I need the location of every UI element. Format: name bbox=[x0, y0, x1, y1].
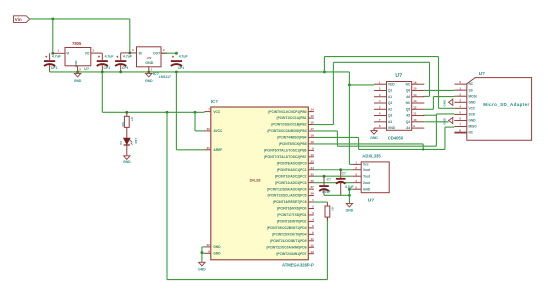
svg-text:NC: NC bbox=[469, 131, 474, 135]
svg-text:CP1: CP1 bbox=[122, 66, 129, 70]
svg-text:U?: U? bbox=[479, 71, 485, 76]
svg-text:4.7uF: 4.7uF bbox=[345, 185, 354, 189]
svg-text:GND: GND bbox=[198, 268, 206, 272]
svg-text:GND: GND bbox=[213, 251, 221, 255]
svg-text:CP1: CP1 bbox=[178, 66, 185, 70]
svg-text:(PCINT20/XCK/T0)PD4: (PCINT20/XCK/T0)PD4 bbox=[272, 232, 307, 236]
svg-text:GND: GND bbox=[363, 187, 371, 191]
svg-text:LED: LED bbox=[134, 138, 138, 144]
svg-text:D?: D? bbox=[119, 140, 123, 144]
svg-text:(PCINT18/INT0)PD2: (PCINT18/INT0)PD2 bbox=[277, 220, 307, 224]
svg-text:11: 11 bbox=[311, 237, 314, 241]
svg-text:(PCINT23/AIN1)PD7: (PCINT23/AIN1)PD7 bbox=[276, 252, 306, 256]
svg-text:Q1: Q1 bbox=[388, 89, 392, 93]
svg-text:CP1: CP1 bbox=[51, 66, 58, 70]
svg-text:VCC: VCC bbox=[469, 106, 476, 110]
svg-text:NC: NC bbox=[406, 101, 411, 105]
svg-text:20: 20 bbox=[207, 127, 211, 131]
svg-text:12: 12 bbox=[310, 243, 314, 247]
svg-text:AVCC: AVCC bbox=[213, 129, 223, 133]
svg-text:+: + bbox=[172, 55, 175, 60]
svg-text:(PCINT11/ADC3)PC3: (PCINT11/ADC3)PC3 bbox=[275, 181, 307, 185]
svg-text:16: 16 bbox=[310, 121, 314, 125]
svg-text:(PCINT16/RXD)PD0: (PCINT16/RXD)PD0 bbox=[277, 207, 307, 211]
svg-text:Vin: Vin bbox=[15, 17, 22, 22]
svg-text:4.7uF: 4.7uF bbox=[123, 54, 132, 58]
svg-text:R?: R? bbox=[330, 207, 334, 211]
svg-text:SCK: SCK bbox=[469, 113, 476, 117]
svg-text:4.7uF: 4.7uF bbox=[179, 54, 188, 58]
svg-text:CD4050: CD4050 bbox=[388, 136, 404, 141]
svg-text:(PCINT12/SDA/ADC4)PC4: (PCINT12/SDA/ADC4)PC4 bbox=[267, 187, 307, 191]
svg-text:A2: A2 bbox=[388, 107, 392, 111]
svg-text:15: 15 bbox=[310, 114, 314, 118]
svg-text:11: 11 bbox=[413, 112, 416, 116]
svg-text:15: 15 bbox=[413, 87, 417, 91]
svg-text:14: 14 bbox=[310, 108, 314, 112]
svg-text:OUT: OUT bbox=[153, 51, 161, 55]
svg-text:(PCINT5/SCK)PB5: (PCINT5/SCK)PB5 bbox=[279, 142, 307, 146]
svg-text:Q3: Q3 bbox=[388, 114, 392, 118]
svg-text:GND: GND bbox=[469, 100, 477, 104]
svg-text:(PCINT7/XTAL2/TOSC2)PB7: (PCINT7/XTAL2/TOSC2)PB7 bbox=[264, 155, 307, 159]
svg-text:14: 14 bbox=[413, 93, 417, 97]
svg-text:GND: GND bbox=[74, 79, 82, 83]
svg-text:A3: A3 bbox=[388, 120, 392, 124]
svg-text:(PCINT13/SCL/ADC5)PC5: (PCINT13/SCL/ADC5)PC5 bbox=[267, 194, 306, 198]
svg-text:21: 21 bbox=[207, 146, 211, 150]
svg-text:LM1117: LM1117 bbox=[159, 75, 171, 79]
svg-text:(PCINT3/OC2A/MOSI)PB3: (PCINT3/OC2A/MOSI)PB3 bbox=[267, 129, 306, 133]
svg-text:MOSI: MOSI bbox=[469, 94, 477, 98]
svg-text:27: 27 bbox=[310, 185, 314, 189]
svg-text:GND: GND bbox=[442, 117, 446, 125]
svg-text:U?: U? bbox=[368, 198, 374, 203]
svg-text:10: 10 bbox=[413, 118, 417, 122]
svg-text:(PCINT6/XTAL1/TOSC1)PB6: (PCINT6/XTAL1/TOSC1)PB6 bbox=[264, 149, 307, 153]
svg-text:VCC: VCC bbox=[213, 110, 221, 114]
svg-text:28: 28 bbox=[310, 192, 314, 196]
svg-text:4.7uF: 4.7uF bbox=[105, 54, 114, 58]
svg-text:Zout: Zout bbox=[363, 181, 371, 185]
svg-text:Vcc: Vcc bbox=[363, 163, 369, 167]
svg-text:ADXL335: ADXL335 bbox=[362, 153, 381, 158]
svg-text:A1: A1 bbox=[388, 95, 392, 99]
svg-text:24: 24 bbox=[310, 166, 314, 170]
svg-text:(PCINT0/CLKO/ICP1)PB0: (PCINT0/CLKO/ICP1)PB0 bbox=[268, 110, 306, 114]
svg-text:(PCINT10/ADC2)PC2: (PCINT10/ADC2)PC2 bbox=[275, 174, 307, 178]
svg-text:IC?: IC? bbox=[211, 99, 218, 104]
svg-text:12: 12 bbox=[413, 105, 417, 109]
svg-text:(PCINT8/ADC0)PC0: (PCINT8/ADC0)PC0 bbox=[277, 161, 307, 165]
svg-text:CP1: CP1 bbox=[104, 66, 111, 70]
svg-text:A6: A6 bbox=[406, 95, 410, 99]
svg-text:4.7uF: 4.7uF bbox=[52, 54, 61, 58]
svg-text:(PCINT17/TXD)PD1: (PCINT17/TXD)PD1 bbox=[277, 213, 306, 217]
svg-text:GND: GND bbox=[388, 126, 396, 130]
svg-text:16: 16 bbox=[413, 80, 417, 84]
svg-text:ATMEGA328P-P: ATMEGA328P-P bbox=[282, 262, 314, 267]
svg-text:4.7uF: 4.7uF bbox=[322, 190, 331, 194]
svg-text:Q6: Q6 bbox=[406, 89, 410, 93]
svg-text:A5: A5 bbox=[406, 114, 410, 118]
svg-text:C?: C? bbox=[327, 177, 331, 181]
svg-text:AREF: AREF bbox=[213, 148, 222, 152]
svg-text:VO: VO bbox=[85, 52, 90, 56]
svg-text:GND: GND bbox=[213, 245, 221, 249]
svg-text:13: 13 bbox=[310, 250, 314, 254]
svg-text:R?: R? bbox=[130, 118, 134, 122]
svg-text:A4: A4 bbox=[406, 126, 410, 130]
svg-text:GND: GND bbox=[346, 208, 354, 212]
svg-text:SS: SS bbox=[469, 88, 473, 92]
svg-text:25: 25 bbox=[310, 172, 314, 176]
svg-text:+: + bbox=[45, 55, 48, 60]
svg-text:NC: NC bbox=[469, 82, 474, 86]
svg-text:7805: 7805 bbox=[72, 41, 82, 46]
svg-text:GND: GND bbox=[145, 79, 153, 83]
svg-text:(PCINT21/OC0B/T1)PD5: (PCINT21/OC0B/T1)PD5 bbox=[270, 239, 307, 243]
svg-text:GND: GND bbox=[123, 160, 131, 164]
svg-text:DIL28: DIL28 bbox=[250, 178, 262, 183]
svg-text:NC: NC bbox=[406, 82, 411, 86]
svg-text:(PCINT22/OC0A/AIN0)PD6: (PCINT22/OC0A/AIN0)PD6 bbox=[266, 245, 306, 249]
svg-text:18: 18 bbox=[310, 134, 314, 138]
svg-text:10: 10 bbox=[310, 153, 314, 157]
svg-text:(PCINT1/OC1A)PB1: (PCINT1/OC1A)PB1 bbox=[277, 116, 307, 120]
svg-text:MISO: MISO bbox=[469, 125, 478, 129]
svg-text:GND: GND bbox=[469, 119, 477, 123]
svg-text:VI: VI bbox=[66, 52, 69, 56]
svg-text:+: + bbox=[98, 55, 101, 60]
svg-text:10K: 10K bbox=[121, 122, 125, 127]
svg-text:C?: C? bbox=[342, 172, 346, 176]
svg-text:Q2: Q2 bbox=[388, 101, 392, 105]
svg-text:GND: GND bbox=[145, 61, 153, 65]
svg-text:Q5: Q5 bbox=[406, 107, 410, 111]
svg-text:GND: GND bbox=[370, 136, 378, 140]
svg-text:(PCINT19/OC2B/INT1)PD3: (PCINT19/OC2B/INT1)PD3 bbox=[267, 226, 307, 230]
svg-text:o5V: o5V bbox=[147, 56, 152, 60]
svg-text:U?: U? bbox=[84, 67, 90, 71]
svg-text:+: + bbox=[116, 55, 119, 60]
svg-text:(PCINT9/ADC1)PC1: (PCINT9/ADC1)PC1 bbox=[277, 168, 307, 172]
svg-text:GND: GND bbox=[442, 99, 446, 107]
svg-text:19: 19 bbox=[310, 140, 314, 144]
svg-text:(PCINT4/MISO)PB4: (PCINT4/MISO)PB4 bbox=[277, 136, 306, 140]
svg-text:17: 17 bbox=[310, 127, 314, 131]
svg-text:22: 22 bbox=[207, 243, 211, 247]
svg-text:Micro_SD_Adapter: Micro_SD_Adapter bbox=[483, 102, 529, 107]
svg-text:13: 13 bbox=[413, 99, 417, 103]
svg-text:Q4: Q4 bbox=[406, 120, 410, 124]
svg-text:VDD: VDD bbox=[388, 82, 395, 86]
svg-text:(PCINT14/RESET)PC6: (PCINT14/RESET)PC6 bbox=[273, 200, 307, 204]
svg-text:26: 26 bbox=[310, 179, 314, 183]
svg-text:U?: U? bbox=[395, 73, 402, 79]
svg-text:Xout: Xout bbox=[363, 168, 371, 172]
svg-text:23: 23 bbox=[310, 159, 314, 163]
svg-text:(PCINT2/SS/OC1B)PB2: (PCINT2/SS/OC1B)PB2 bbox=[271, 123, 306, 127]
svg-text:Yout: Yout bbox=[363, 174, 371, 178]
